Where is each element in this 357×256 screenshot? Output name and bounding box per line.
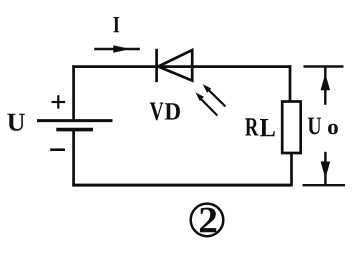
diode VD cathode bar [155,49,158,82]
current arrow I, pointing right [94,45,140,52]
battery - sign [50,148,65,151]
wire: right vertical, resistor RL down to bottom wire [290,153,293,186]
light arrow 1 into photodiode (lower-left arrow) [196,93,218,116]
label I (current) [113,17,119,32]
resistor RL body [282,102,301,154]
label Uo (output voltage) [308,118,338,135]
battery U: negative plate (short, thick) [56,128,93,132]
Uo dimension: down arrow [321,152,331,185]
Uo dimension: bottom tick [303,184,346,186]
label VD [150,103,164,121]
wire: bottom segment [72,184,291,187]
battery U: positive plate (long) [37,119,113,122]
wire: top segment, through diode to right corner [157,65,291,68]
battery + sign [52,95,66,108]
wire: right vertical, top corner down to resistor RL [289,65,292,102]
label RL [245,118,258,135]
Uo dimension: top tick [304,65,344,67]
label U (source voltage) [7,114,24,131]
diode VD triangle (pointing left, photodiode) [158,50,192,81]
wire: left vertical, battery - plate down to bottom wire [72,130,75,187]
wire: left vertical, top wire down to battery + plate [72,65,75,120]
wire: top segment, battery to diode cathode [72,65,157,68]
light arrow 2 into photodiode (upper-right arrow) [203,84,226,106]
figure number ② (circled 2) [191,204,224,237]
Uo dimension: up arrow [321,67,331,105]
